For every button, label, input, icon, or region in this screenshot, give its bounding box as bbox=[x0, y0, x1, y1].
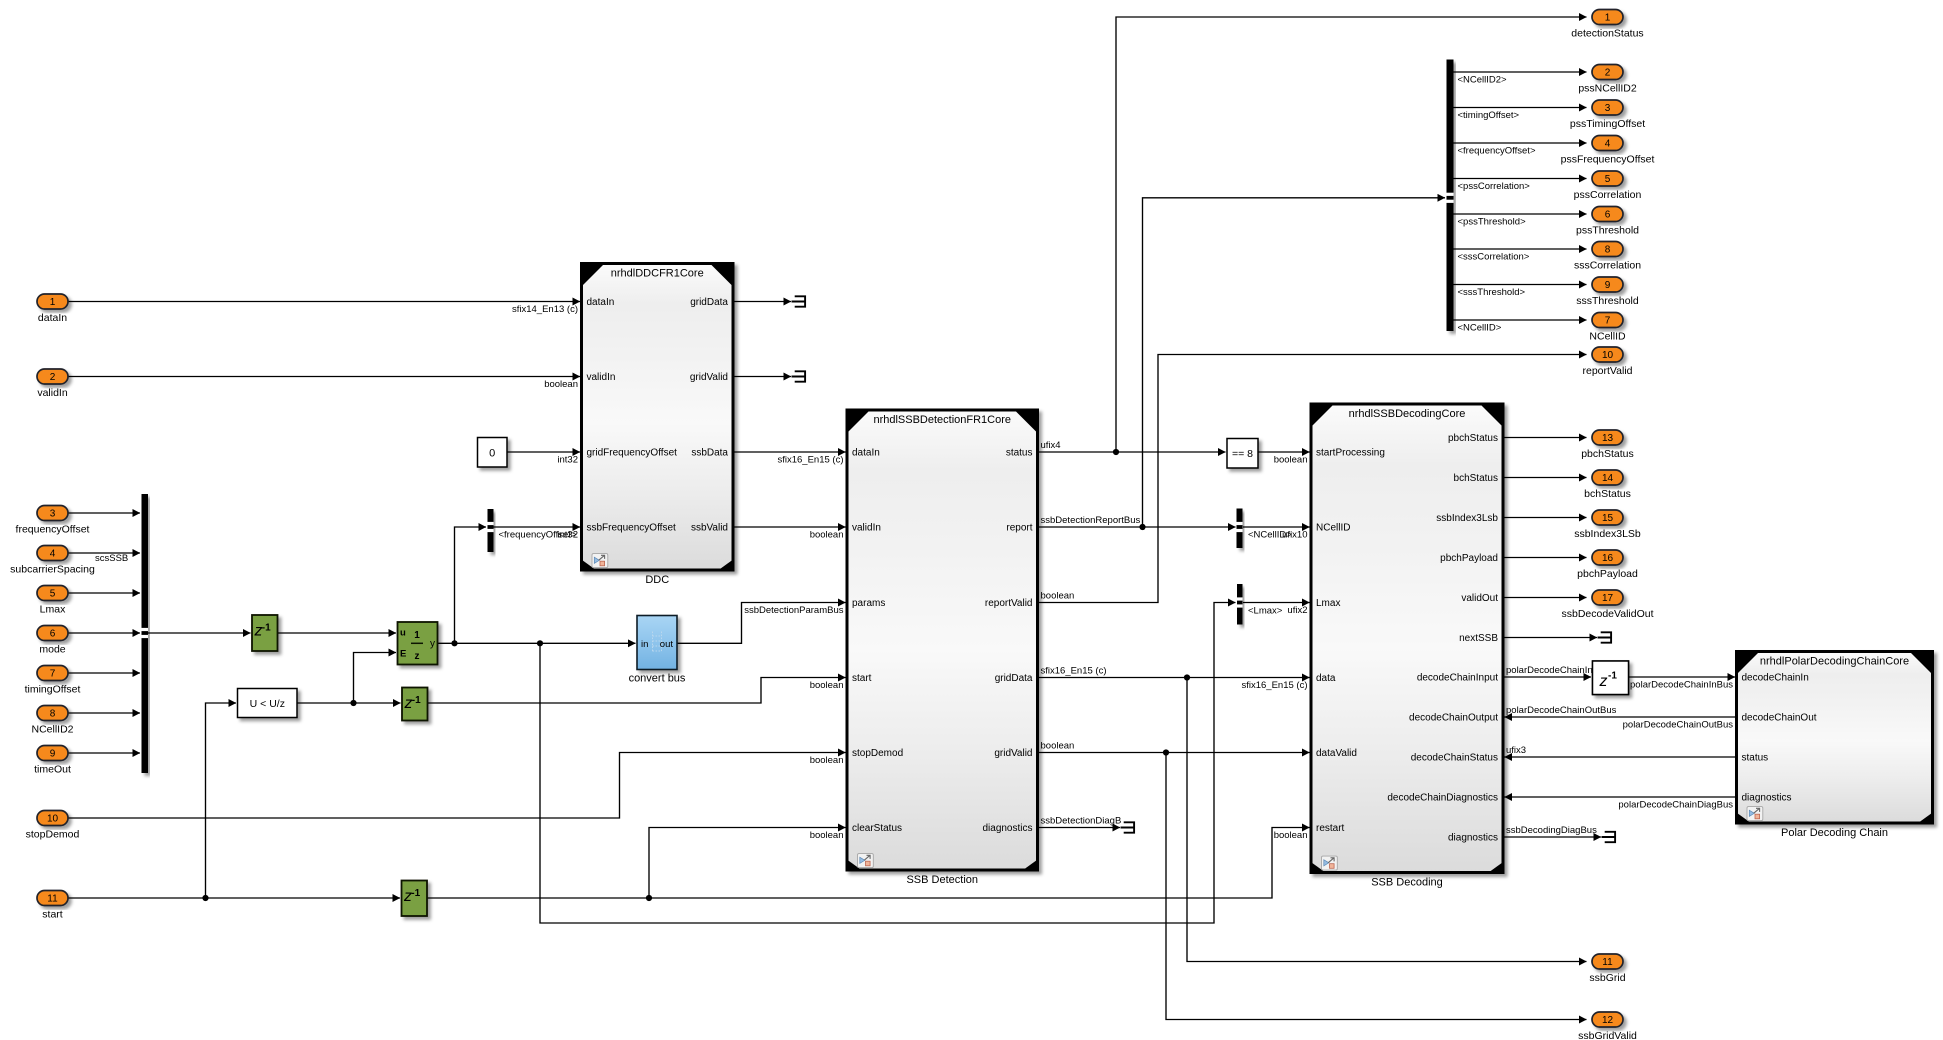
svg-text:ssbIndex3LSb: ssbIndex3LSb bbox=[1574, 528, 1641, 540]
svg-text:gridFrequencyOffset: gridFrequencyOffset bbox=[587, 448, 678, 459]
svg-text:<Lmax>: <Lmax> bbox=[1248, 606, 1283, 617]
svg-text:out: out bbox=[660, 639, 674, 650]
svg-text:10: 10 bbox=[47, 814, 59, 825]
svg-text:gridValid: gridValid bbox=[690, 372, 728, 383]
svg-text:ssbDecodeValidOut: ssbDecodeValidOut bbox=[1561, 608, 1653, 620]
svg-text:params: params bbox=[852, 598, 885, 609]
svg-text:pssTimingOffset: pssTimingOffset bbox=[1570, 118, 1645, 130]
svg-text:6: 6 bbox=[50, 629, 56, 640]
svg-text:NCellID2: NCellID2 bbox=[31, 724, 73, 736]
svg-text:13: 13 bbox=[1602, 433, 1614, 444]
svg-text:sfix16_En15 (c): sfix16_En15 (c) bbox=[1241, 680, 1307, 691]
svg-text:ufix3: ufix3 bbox=[1506, 745, 1526, 756]
svg-text:11: 11 bbox=[47, 894, 58, 905]
svg-text:0: 0 bbox=[489, 448, 495, 460]
svg-text:<frequencyOffset>: <frequencyOffset> bbox=[499, 530, 577, 541]
svg-text:stopDemod: stopDemod bbox=[852, 748, 903, 759]
svg-text:u: u bbox=[400, 628, 406, 639]
svg-text:2: 2 bbox=[50, 372, 56, 383]
svg-text:pssNCellID2: pssNCellID2 bbox=[1578, 83, 1637, 95]
svg-text:pssFrequencyOffset: pssFrequencyOffset bbox=[1561, 154, 1655, 166]
svg-text:pssCorrelation: pssCorrelation bbox=[1574, 189, 1642, 201]
svg-text:decodeChainDiagnostics: decodeChainDiagnostics bbox=[1387, 793, 1498, 804]
svg-text:nrhdlPolarDecodingChainCore: nrhdlPolarDecodingChainCore bbox=[1760, 656, 1909, 668]
svg-text:<sssCorrelation>: <sssCorrelation> bbox=[1458, 252, 1530, 263]
svg-text:-1: -1 bbox=[262, 623, 271, 634]
svg-text:7: 7 bbox=[50, 669, 56, 680]
svg-text:dataIn: dataIn bbox=[38, 312, 67, 324]
svg-text:reportValid: reportValid bbox=[1583, 365, 1633, 377]
svg-text:int32: int32 bbox=[557, 455, 578, 466]
svg-text:z: z bbox=[1599, 673, 1608, 690]
svg-text:detectionStatus: detectionStatus bbox=[1571, 28, 1643, 40]
svg-text:frequencyOffset: frequencyOffset bbox=[16, 524, 90, 536]
svg-text:validIn: validIn bbox=[852, 523, 881, 534]
svg-text:DDC: DDC bbox=[645, 574, 669, 586]
svg-text:16: 16 bbox=[1602, 553, 1614, 564]
svg-text:boolean: boolean bbox=[1274, 830, 1308, 841]
svg-text:polarDecodeChainInBus: polarDecodeChainInBus bbox=[1630, 680, 1733, 691]
svg-text:sfix16_En15 (c): sfix16_En15 (c) bbox=[1041, 666, 1107, 677]
svg-text:bchStatus: bchStatus bbox=[1584, 488, 1631, 500]
svg-text:stopDemod: stopDemod bbox=[26, 829, 80, 841]
svg-text:boolean: boolean bbox=[544, 379, 578, 390]
svg-text:boolean: boolean bbox=[810, 680, 844, 691]
svg-text:sssThreshold: sssThreshold bbox=[1576, 295, 1639, 307]
svg-text:dataValid: dataValid bbox=[1316, 748, 1357, 759]
svg-text:<pssThreshold>: <pssThreshold> bbox=[1458, 217, 1527, 228]
svg-text:8: 8 bbox=[1605, 245, 1611, 256]
svg-text:ssbFrequencyOffset: ssbFrequencyOffset bbox=[587, 523, 677, 534]
svg-text:gridData: gridData bbox=[690, 297, 728, 308]
svg-text:gridData: gridData bbox=[995, 673, 1033, 684]
svg-text:<NCellID2>: <NCellID2> bbox=[1458, 75, 1508, 86]
svg-text:10: 10 bbox=[1602, 350, 1614, 361]
svg-text:reportValid: reportValid bbox=[985, 598, 1033, 609]
svg-text:validIn: validIn bbox=[587, 372, 616, 383]
svg-text:sfix14_En13 (c): sfix14_En13 (c) bbox=[512, 304, 578, 315]
svg-text:timeOut: timeOut bbox=[34, 764, 71, 776]
svg-text:14: 14 bbox=[1602, 473, 1614, 484]
svg-text:diagnostics: diagnostics bbox=[1742, 793, 1792, 804]
svg-text:1: 1 bbox=[50, 297, 56, 308]
svg-text:== 8: == 8 bbox=[1232, 448, 1253, 460]
svg-text:polarDecodeChainDiagBus: polarDecodeChainDiagBus bbox=[1618, 800, 1733, 811]
svg-text:-1: -1 bbox=[411, 888, 420, 899]
svg-text:sssCorrelation: sssCorrelation bbox=[1574, 260, 1641, 272]
svg-text:6: 6 bbox=[1605, 210, 1611, 221]
svg-text:boolean: boolean bbox=[1274, 455, 1308, 466]
svg-text:boolean: boolean bbox=[1041, 591, 1075, 602]
svg-text:pssThreshold: pssThreshold bbox=[1576, 225, 1639, 237]
svg-text:9: 9 bbox=[1605, 280, 1611, 291]
svg-text:SSB Detection: SSB Detection bbox=[906, 874, 978, 886]
svg-text:ssbDecodingDiagBus: ssbDecodingDiagBus bbox=[1506, 825, 1597, 836]
svg-text:boolean: boolean bbox=[810, 830, 844, 841]
svg-text:polarDecodeChainOutBus: polarDecodeChainOutBus bbox=[1623, 720, 1734, 731]
svg-text:ufix4: ufix4 bbox=[1041, 440, 1061, 451]
svg-text:NCellID: NCellID bbox=[1589, 331, 1626, 343]
svg-text:12: 12 bbox=[1602, 1015, 1614, 1026]
svg-text:polarDecodeChainOutBus: polarDecodeChainOutBus bbox=[1506, 705, 1617, 716]
svg-text:<pssCorrelation>: <pssCorrelation> bbox=[1458, 181, 1531, 192]
svg-text:NCellID: NCellID bbox=[1316, 523, 1350, 534]
svg-text:timingOffset: timingOffset bbox=[25, 684, 81, 696]
svg-text:4: 4 bbox=[50, 549, 56, 560]
svg-text:nrhdlSSBDecodingCore: nrhdlSSBDecodingCore bbox=[1349, 408, 1466, 420]
svg-text:status: status bbox=[1006, 448, 1033, 459]
svg-text:startProcessing: startProcessing bbox=[1316, 448, 1385, 459]
svg-text:U < U/z: U < U/z bbox=[250, 698, 285, 710]
svg-text:nrhdlSSBDetectionFR1Core: nrhdlSSBDetectionFR1Core bbox=[873, 414, 1011, 426]
svg-text:subcarrierSpacing: subcarrierSpacing bbox=[10, 564, 95, 576]
svg-text:y: y bbox=[430, 639, 435, 650]
svg-text:status: status bbox=[1742, 753, 1769, 764]
svg-text:validIn: validIn bbox=[37, 387, 68, 399]
svg-text:clearStatus: clearStatus bbox=[852, 823, 902, 834]
svg-text:dataIn: dataIn bbox=[587, 297, 615, 308]
svg-text:decodeChainStatus: decodeChainStatus bbox=[1411, 753, 1498, 764]
svg-text:dataIn: dataIn bbox=[852, 448, 880, 459]
svg-text:<NCellID>: <NCellID> bbox=[1248, 530, 1292, 541]
svg-text:7: 7 bbox=[1605, 316, 1611, 327]
svg-text:start: start bbox=[852, 673, 872, 684]
svg-text:1: 1 bbox=[414, 630, 420, 641]
svg-text:pbchPayload: pbchPayload bbox=[1577, 568, 1638, 580]
svg-text:report: report bbox=[1006, 523, 1032, 534]
svg-text:<timingOffset>: <timingOffset> bbox=[1458, 110, 1520, 121]
svg-text:pbchStatus: pbchStatus bbox=[1448, 433, 1498, 444]
svg-text:pbchPayload: pbchPayload bbox=[1440, 553, 1498, 564]
svg-text:Polar Decoding Chain: Polar Decoding Chain bbox=[1781, 827, 1888, 839]
svg-text:pbchStatus: pbchStatus bbox=[1581, 448, 1634, 460]
svg-text:boolean: boolean bbox=[810, 755, 844, 766]
svg-text:3: 3 bbox=[1605, 103, 1611, 114]
svg-text:diagnostics: diagnostics bbox=[1448, 833, 1498, 844]
svg-text:decodeChainInput: decodeChainInput bbox=[1417, 673, 1498, 684]
svg-text:gridValid: gridValid bbox=[994, 748, 1032, 759]
svg-text:scsSSB: scsSSB bbox=[95, 553, 128, 564]
svg-text:2: 2 bbox=[1605, 68, 1611, 79]
svg-text:-1: -1 bbox=[412, 695, 421, 706]
svg-text:<sssThreshold>: <sssThreshold> bbox=[1458, 287, 1526, 298]
svg-text:decodeChainIn: decodeChainIn bbox=[1742, 673, 1809, 684]
svg-text:ssbDetectionParamBus: ssbDetectionParamBus bbox=[744, 605, 844, 616]
svg-text:5: 5 bbox=[50, 589, 56, 600]
svg-text:Lmax: Lmax bbox=[1316, 598, 1340, 609]
svg-text:<frequencyOffset>: <frequencyOffset> bbox=[1458, 146, 1536, 157]
svg-text:ssbDetectionReportBus: ssbDetectionReportBus bbox=[1041, 515, 1141, 526]
svg-text:4: 4 bbox=[1605, 139, 1611, 150]
svg-text:E: E bbox=[400, 649, 406, 660]
svg-text:restart: restart bbox=[1316, 823, 1345, 834]
svg-text:bchStatus: bchStatus bbox=[1454, 473, 1498, 484]
svg-text:validOut: validOut bbox=[1461, 593, 1498, 604]
svg-text:diagnostics: diagnostics bbox=[982, 823, 1032, 834]
svg-text:ssbDetectionDiagB: ssbDetectionDiagB bbox=[1041, 816, 1122, 827]
svg-text:SSB Decoding: SSB Decoding bbox=[1371, 876, 1443, 888]
svg-text:decodeChainOut: decodeChainOut bbox=[1742, 713, 1817, 724]
svg-text:5: 5 bbox=[1605, 174, 1611, 185]
svg-text:nrhdlDDCFR1Core: nrhdlDDCFR1Core bbox=[611, 268, 704, 280]
svg-text:11: 11 bbox=[1602, 957, 1613, 968]
svg-text:decodeChainOutput: decodeChainOutput bbox=[1409, 713, 1498, 724]
svg-text:sfix16_En15 (c): sfix16_En15 (c) bbox=[777, 455, 843, 466]
svg-text:-1: -1 bbox=[1608, 671, 1617, 682]
svg-text:<NCellID>: <NCellID> bbox=[1458, 323, 1502, 334]
svg-text:17: 17 bbox=[1602, 593, 1614, 604]
svg-text:ssbData: ssbData bbox=[691, 448, 728, 459]
svg-text:ufix2: ufix2 bbox=[1287, 605, 1307, 616]
svg-text:9: 9 bbox=[50, 749, 56, 760]
svg-text:nextSSB: nextSSB bbox=[1459, 633, 1498, 644]
svg-text:convert bus: convert bus bbox=[629, 673, 686, 685]
svg-text:start: start bbox=[42, 909, 63, 921]
svg-text:mode: mode bbox=[39, 644, 65, 656]
svg-text:in: in bbox=[641, 639, 648, 650]
svg-text:data: data bbox=[1316, 673, 1336, 684]
svg-text:boolean: boolean bbox=[1041, 741, 1075, 752]
svg-text:ssbGrid: ssbGrid bbox=[1589, 972, 1625, 984]
svg-text:boolean: boolean bbox=[810, 530, 844, 541]
svg-text:1: 1 bbox=[1605, 13, 1611, 24]
svg-text:ssbGridValid: ssbGridValid bbox=[1578, 1030, 1637, 1040]
svg-text:z: z bbox=[415, 651, 420, 662]
svg-text:8: 8 bbox=[50, 709, 56, 720]
svg-text:ssbValid: ssbValid bbox=[691, 523, 728, 534]
svg-text:15: 15 bbox=[1602, 513, 1614, 524]
svg-text:Lmax: Lmax bbox=[40, 604, 66, 616]
svg-text:3: 3 bbox=[50, 509, 56, 520]
svg-text:ssbIndex3Lsb: ssbIndex3Lsb bbox=[1436, 513, 1498, 524]
